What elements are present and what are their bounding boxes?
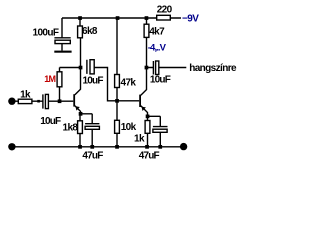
svg-text:10uF: 10uF: [150, 75, 171, 86]
svg-text:6k8: 6k8: [82, 26, 98, 37]
svg-text:47uF: 47uF: [139, 150, 160, 161]
svg-text:1k: 1k: [134, 134, 145, 145]
svg-text:1M: 1M: [44, 74, 55, 84]
svg-text:10uF: 10uF: [40, 116, 61, 127]
svg-text:1k8: 1k8: [63, 122, 79, 133]
svg-text:100uF: 100uF: [33, 27, 59, 38]
svg-text:−9V: −9V: [182, 13, 199, 24]
svg-text:47k: 47k: [121, 78, 137, 89]
svg-text:10k: 10k: [121, 122, 137, 133]
svg-text:4k7: 4k7: [149, 27, 165, 38]
svg-text:1k: 1k: [20, 90, 31, 101]
svg-text:47uF: 47uF: [82, 150, 103, 161]
svg-text:220: 220: [157, 5, 173, 16]
svg-text:10uF: 10uF: [83, 76, 104, 87]
svg-text:hangszínre: hangszínre: [189, 63, 237, 74]
svg-text:-4,..V: -4,..V: [148, 43, 167, 54]
